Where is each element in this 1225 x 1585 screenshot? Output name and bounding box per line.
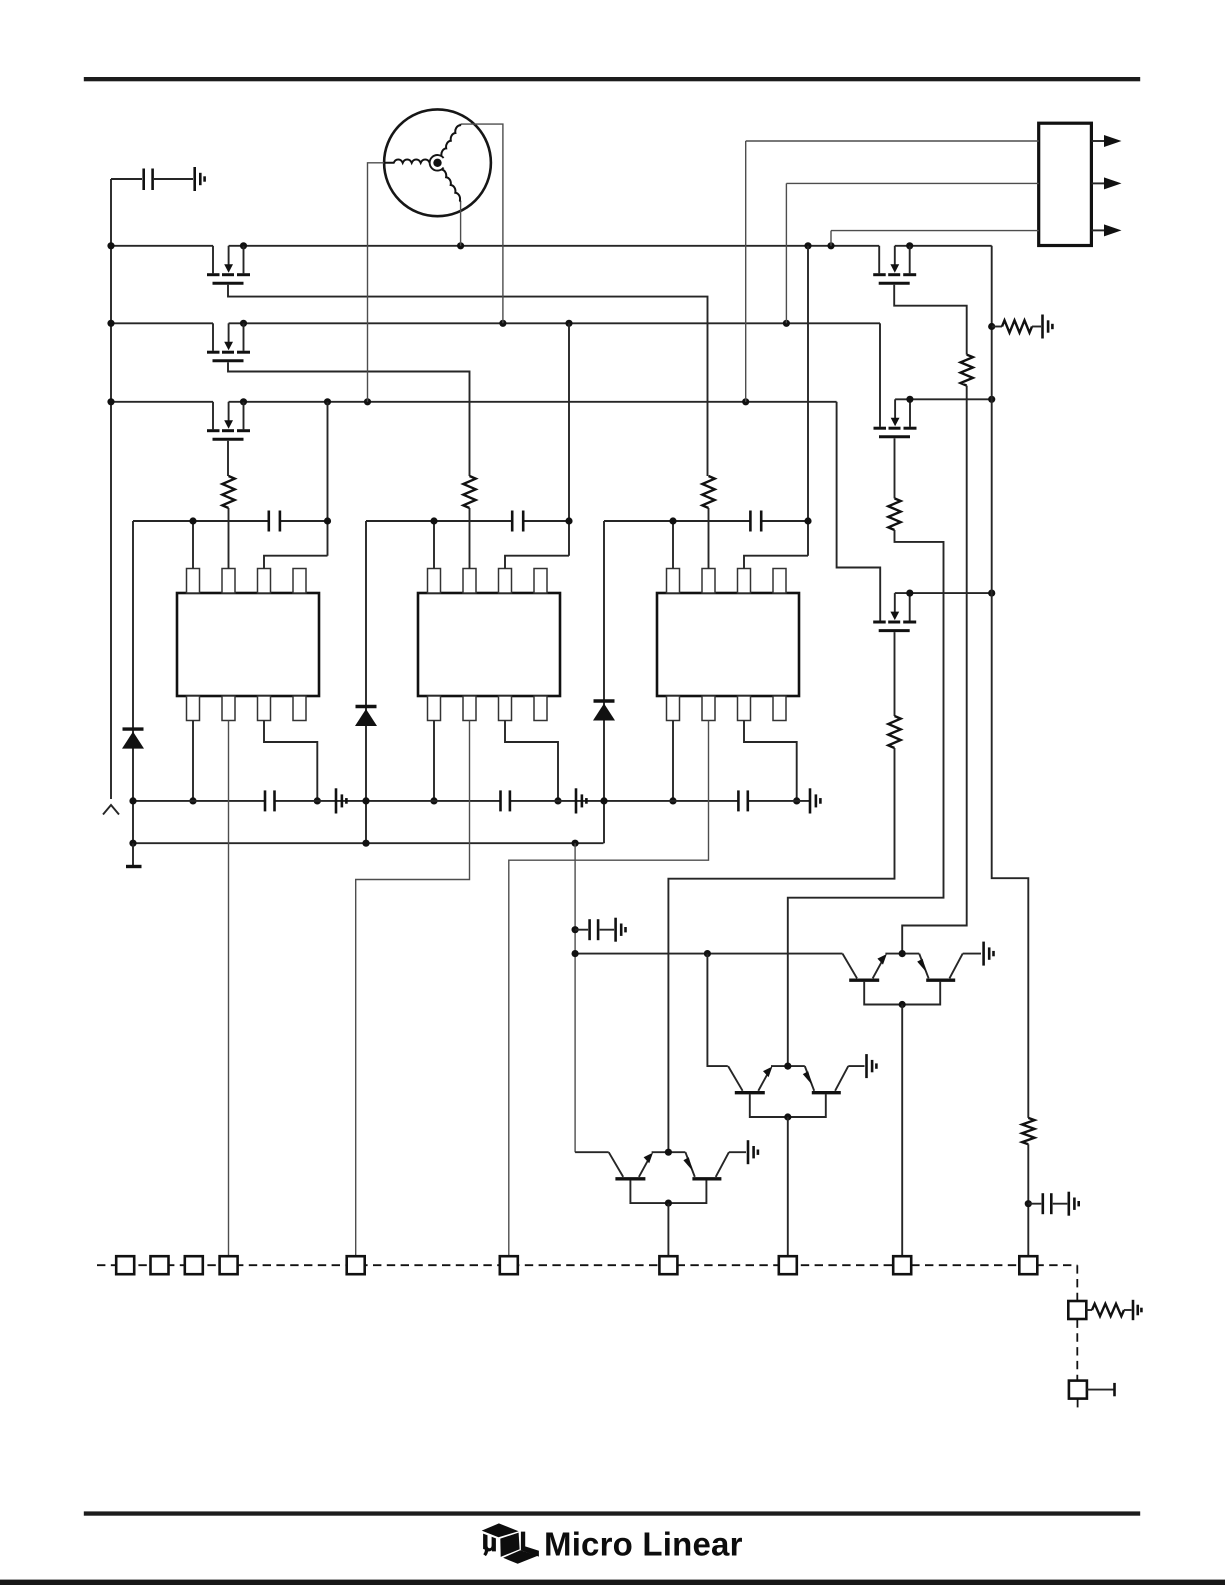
transistor pair Q9/Q10 (mirror B) <box>728 1063 848 1121</box>
resistor R1g above U1 pin2 <box>222 476 234 508</box>
IC U3 body <box>657 593 799 696</box>
wire: pad P12 stub with terminal bar <box>1087 1389 1115 1391</box>
transistor Q5 drain lead <box>879 323 881 427</box>
ground (U2 rail) <box>576 788 586 813</box>
wire: U1 top rail <box>133 520 269 522</box>
transistor Q2 (middle P-FET) <box>207 323 250 361</box>
wire: U3 pin6 to pad <box>509 721 709 1257</box>
wire: Q5 gate lead <box>894 438 896 498</box>
wire: Q6 source to sense line <box>895 592 992 594</box>
resistor R9 at pad P11 <box>1086 1309 1092 1311</box>
wire: left supply bus vertical <box>110 179 112 799</box>
wire: U3 pin1 to rail <box>672 521 674 569</box>
wire: U2 top rail <box>366 520 512 522</box>
wire: row3 jog to Q6 drain <box>837 402 881 621</box>
ground (mirror A) <box>984 942 994 966</box>
pad P1 <box>116 1256 134 1274</box>
wire: lower return rail <box>133 842 604 844</box>
output arrow 3 <box>1091 229 1104 231</box>
wire: U2 pin7 to gnd rail <box>505 721 558 801</box>
wire: U3 left rail vertical <box>603 521 605 843</box>
capacitor C1b on ground rail <box>265 790 275 811</box>
transistor Q5 (middle N-FET) <box>874 399 917 437</box>
wire: mirror A bases to pad <box>901 1005 903 1257</box>
wire: U3 top rail <box>604 520 750 522</box>
pad P2 <box>151 1256 169 1274</box>
junction dots row1 <box>107 242 114 249</box>
motor M1 (3-phase) outline <box>384 109 491 216</box>
resistor R5 (Q5 gate) <box>888 498 900 530</box>
IC U2 pins <box>428 569 441 594</box>
junction dots row2 <box>107 320 114 327</box>
motor winding B (upper-right) <box>441 124 460 156</box>
wire: Q3 gate to IC1 gate resistor <box>227 441 229 476</box>
IC U2 body <box>418 593 560 696</box>
capacitor C8 to ground (sense) <box>1025 1200 1032 1207</box>
wire: U1 phase node vertical <box>327 402 329 556</box>
resistor R7 to ground (sense) <box>992 326 1002 328</box>
output block (tach box) <box>1039 123 1092 245</box>
output arrow 2 <box>1091 182 1104 184</box>
diode D1 body <box>122 729 144 749</box>
wire: Q4 gate chain to mirror A <box>902 386 967 954</box>
pad P10 (sense) <box>1019 1256 1037 1274</box>
junction dots lower rail <box>129 840 136 847</box>
transistor Q3 drain lead <box>212 402 214 430</box>
terminal bar (left) <box>126 865 142 868</box>
wire: U1 left rail vertical <box>132 521 134 843</box>
wire: Q2 gate to IC2 gate resistor <box>228 362 470 476</box>
wire: U3 pin3 up to phase node <box>744 556 808 569</box>
dashed interface rail <box>97 1264 1077 1266</box>
Micro Linear logo icon <box>482 1523 539 1563</box>
wire: down to mirror B collector <box>707 954 727 1067</box>
ground (U3 rail) <box>810 788 820 813</box>
transistor Q6 (bottom N-FET) <box>873 593 916 631</box>
wire: mirror B bases to pad <box>787 1117 789 1256</box>
wire: U1 pin7 to gnd rail <box>264 721 317 801</box>
wire: motor phase A lead to row3 <box>368 163 385 402</box>
pad P9 (mirror A) <box>893 1256 911 1274</box>
wire: mirror A collector line <box>575 953 842 955</box>
pad P12 <box>1069 1381 1087 1399</box>
transistor Q3 (bottom P-FET) <box>207 402 250 440</box>
wire: row2 phase-B line <box>229 322 880 324</box>
pad P8 (mirror B) <box>779 1256 797 1274</box>
ground (mirror C) <box>748 1140 758 1164</box>
resistor R2g above U2 pin2 <box>463 476 475 508</box>
capacitor C5 to ground <box>572 926 579 933</box>
wire: U1 pin1 to rail <box>192 521 194 569</box>
top horizontal rule <box>84 77 1140 81</box>
motor center hub <box>430 155 444 171</box>
ground (sense R7) <box>1043 315 1053 339</box>
pad P3 <box>185 1256 203 1274</box>
wire: Q6 gate lead <box>894 632 896 716</box>
wire: U1 pin5 down to gnd rail <box>192 721 194 801</box>
capacitor C2a on U2 top rail <box>512 511 523 532</box>
junction dot sense/R7 <box>988 323 995 330</box>
resistor R4 (Q4 gate) <box>961 355 973 386</box>
junction dots row3 <box>107 398 114 405</box>
pad P7 (mirror C) <box>659 1256 677 1274</box>
wire: U2 pin5 down to gnd rail <box>433 721 435 801</box>
wire: row3 phase-C line <box>229 401 837 403</box>
ground (top-left) <box>195 167 205 191</box>
wire: mirror C collector stub <box>575 1151 609 1153</box>
wire: Q5 source to sense line <box>895 398 992 400</box>
output arrow 1 <box>1091 140 1104 142</box>
wire: U3 phase node vertical <box>807 246 809 556</box>
wire: rail to mirror C collector <box>574 843 576 1152</box>
capacitor C1 top-left with ground <box>111 178 142 180</box>
wire: row1 NMOS1 source segment <box>895 245 992 247</box>
wire: ground rail under ICs <box>133 800 265 802</box>
wire: mirror C bases to pad <box>667 1203 669 1256</box>
resistor R6 (Q6 gate) <box>888 716 900 748</box>
wire: row3 bus-to-PMOS3 drain <box>111 401 213 403</box>
wire: U2 pin3 up to phase node <box>505 556 569 569</box>
wire: Q4 gate lead <box>894 285 967 355</box>
wire: box input 3 stub to row1 <box>830 231 832 246</box>
motor winding C (lower-right) <box>442 170 461 202</box>
junction dots mirror A line <box>572 950 579 957</box>
wire: rail stub to terminal bar <box>132 843 134 865</box>
transistor pair Q11/Q12 (mirror C) <box>609 1149 729 1207</box>
wire: U1 pin3 up to phase node <box>264 556 328 569</box>
pad P5 (U2 pin6) <box>347 1256 365 1274</box>
wire: row1 bus-to-PMOS1 drain <box>111 245 213 247</box>
off-page connector chevron at bus bottom <box>103 805 119 815</box>
motor winding A (left) <box>384 159 430 162</box>
ground (mirror B) <box>867 1054 877 1078</box>
capacitor C2b on ground rail <box>501 790 510 811</box>
wire: U2 phase node vertical <box>568 323 570 555</box>
transistor Q1 drain lead <box>212 246 214 273</box>
wire: Q1 gate to IC3 gate resistor <box>228 285 708 476</box>
transistor pair Q7/Q8 (mirror A) <box>843 950 963 1008</box>
transistor Q1 (top P-FET) <box>207 246 250 283</box>
bottom horizontal rule <box>84 1511 1140 1515</box>
wire: row2 bus-to-PMOS2 drain <box>111 322 213 324</box>
wire: U1 pin6 to pad <box>228 721 230 1257</box>
junction dots ground rail <box>129 797 136 804</box>
pad P6 (U3 pin6) <box>500 1256 518 1274</box>
wire: box input 1 vertical to row3 <box>745 141 747 402</box>
wire: U2 left rail vertical <box>365 521 367 843</box>
wire: Q6 gate chain to mirror C <box>668 748 894 1152</box>
junction dots Q5 source <box>906 396 913 403</box>
wire: box input 1 horizontal <box>746 140 1039 142</box>
transistor Q4 (top N-FET) <box>873 246 916 283</box>
IC U1 body <box>177 593 319 696</box>
wire: U3 pin7 to gnd rail <box>744 721 797 801</box>
wire: U3 pin5 down to gnd rail <box>672 721 674 801</box>
junction dots Q6 source <box>906 590 913 597</box>
ground (P11) <box>1133 1300 1141 1320</box>
wire: U2 pin1 to rail <box>433 521 435 569</box>
wire: box input 2 vertical to row2 <box>785 183 787 323</box>
IC U3 pins <box>667 569 680 594</box>
wire: motor phase C lead to row1 <box>460 202 462 246</box>
capacitor C1a on U1 top rail <box>269 511 280 532</box>
diode D3 body <box>593 701 615 721</box>
svg-text:Micro Linear: Micro Linear <box>544 1526 743 1563</box>
wire: box input 2 horizontal <box>786 182 1038 184</box>
pad P11 <box>1068 1301 1086 1319</box>
capacitor C3a on U3 top rail <box>750 511 761 532</box>
wire: U2 pin6 to pad <box>356 721 470 1257</box>
ground (U1 rail) <box>336 788 346 813</box>
bottom page border bar <box>0 1580 1225 1585</box>
IC U1 pins <box>187 569 200 594</box>
wire: sense line vertical (NMOS sources) <box>992 246 1029 1118</box>
wire: motor phase B lead to row2 <box>461 124 503 323</box>
diode D2 body <box>355 707 377 727</box>
capacitor C3b on ground rail <box>738 790 747 811</box>
pad P4 (U1 pin6) <box>220 1256 238 1274</box>
wire: Q5 gate chain to mirror B <box>788 530 944 1066</box>
resistor R3g above U3 pin2 <box>702 476 714 508</box>
wire: box input 3 horizontal <box>831 230 1039 232</box>
transistor Q4 drain lead <box>878 246 880 273</box>
transistor Q2 drain lead <box>212 323 214 351</box>
wire: row1 phase-A line <box>229 245 880 247</box>
resistor R8 (sense bottom) <box>1022 1118 1034 1144</box>
wire: sense to pad <box>1027 1144 1029 1256</box>
